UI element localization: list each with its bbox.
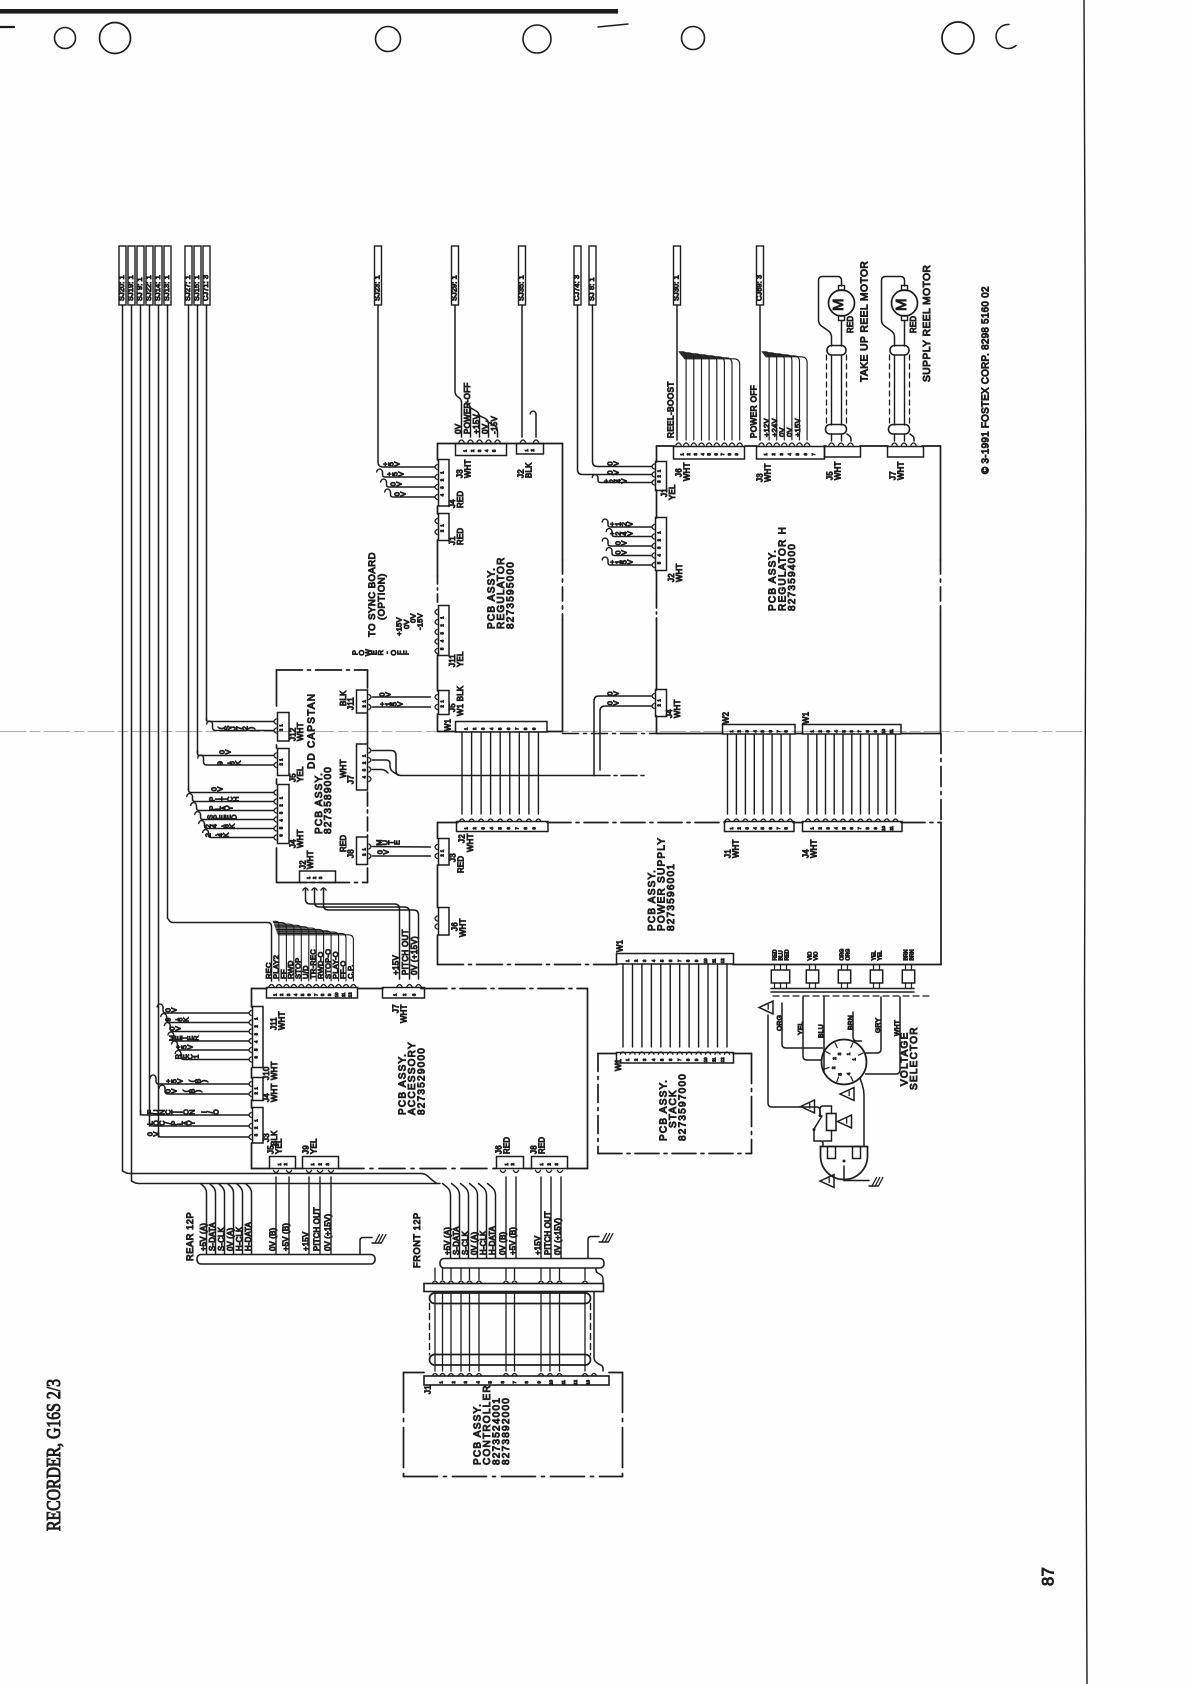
wire SJ15 to J5 pin1 labelled 0V (198, 751, 274, 756)
connector J3 RED on power supply left (439, 839, 450, 866)
wires J8 RED to front rail (540, 1177, 542, 1258)
rear rail wires from trunk (201, 1184, 207, 1255)
svg-text:1: 1 (279, 724, 284, 727)
PCB assy ACCESSORY board outline (252, 988, 268, 990)
svg-text:V: V (151, 1131, 160, 1136)
svg-text:SJ20: 1: SJ20: 1 (117, 275, 126, 301)
svg-text:V: V (396, 471, 405, 476)
selector feed wire to mains switch (768, 1015, 820, 1114)
svg-text:WHT: WHT (270, 1061, 279, 1080)
svg-text:8: 8 (320, 993, 325, 996)
warning triangle near fuse (838, 1115, 852, 1128)
wire harness from SJ20 group (122, 305, 124, 1171)
svg-text:11: 11 (341, 992, 346, 997)
svg-text:2: 2 (472, 727, 477, 730)
ribbon wires (434, 1292, 436, 1372)
svg-text:© 3-1991 FOSTEX CORP. 8298 516: © 3-1991 FOSTEX CORP. 8298 5160 02 (980, 286, 991, 474)
svg-text:7: 7 (811, 452, 816, 455)
svg-text:9: 9 (532, 826, 537, 829)
svg-text:K: K (233, 760, 242, 765)
svg-text:2: 2 (472, 826, 477, 829)
svg-text:M: M (893, 299, 910, 312)
svg-text:1: 1 (729, 729, 734, 732)
svg-text:3: 3 (642, 959, 647, 962)
svg-text:3: 3 (286, 993, 291, 996)
connector J7 WHT on DD capstan right (357, 744, 368, 790)
svg-text:2: 2 (686, 452, 691, 455)
svg-text:K: K (221, 832, 230, 837)
svg-text:1: 1 (657, 531, 662, 534)
svg-text:S-CLK: S-CLK (217, 1226, 226, 1251)
svg-text:0V: 0V (481, 423, 490, 434)
svg-text:9: 9 (537, 1380, 542, 1383)
svg-text:2: 2 (737, 826, 742, 829)
svg-text:3: 3 (477, 449, 482, 452)
svg-text:9: 9 (873, 826, 878, 829)
connector W1 on regulator H bottom (803, 725, 902, 735)
svg-text:R: R (191, 1035, 200, 1040)
svg-text:1: 1 (254, 1086, 259, 1089)
svg-text:YEL: YEL (296, 766, 305, 782)
svg-text:0V (+15V): 0V (+15V) (410, 936, 419, 975)
svg-text:YEL: YEL (310, 1138, 319, 1154)
svg-text:2: 2 (440, 704, 445, 707)
svg-text:1: 1 (362, 699, 367, 702)
punch hole (942, 22, 974, 54)
connector J6 WHT on regulator H top (REEL-BOOST) (674, 447, 745, 460)
svg-text:WHT: WHT (464, 459, 473, 478)
svg-text:SJ15: 1: SJ15: 1 (192, 275, 201, 301)
AC plug body (821, 1147, 868, 1180)
svg-text:WHT: WHT (675, 563, 684, 582)
svg-text:4: 4 (833, 729, 838, 732)
PCB assy CONTROLLER board outline (404, 1372, 425, 1374)
svg-text:1: 1 (810, 826, 815, 829)
connector J5 YEL on DD capstan (278, 749, 290, 776)
svg-text:2: 2 (510, 1162, 515, 1165)
svg-text:2: 2 (634, 1058, 639, 1061)
svg-text:8273596001: 8273596001 (666, 863, 677, 931)
svg-text:SUPPLY REEL MOTOR: SUPPLY REEL MOTOR (922, 265, 933, 382)
svg-text:4: 4 (475, 1380, 480, 1383)
svg-text:H-DATA: H-DATA (244, 1221, 253, 1251)
svg-text:PITCH OUT: PITCH OUT (401, 929, 410, 975)
svg-text:3: 3 (481, 727, 486, 730)
fuse (827, 1114, 837, 1131)
svg-text:3: 3 (254, 1133, 259, 1136)
svg-text:0V (A): 0V (A) (226, 1228, 235, 1251)
svg-text:3: 3 (745, 729, 750, 732)
wires J3 BLK (FUNCTION I/O LOC/PLAY 0V) (141, 1110, 249, 1115)
svg-text:+5V (B): +5V (B) (508, 1227, 517, 1255)
svg-text:SJ13: 1: SJ13: 1 (162, 275, 171, 301)
wires W1 regulator to J2 power supply (461, 732, 463, 814)
harness trunk to J11 (control signals) (168, 918, 272, 981)
svg-text:1: 1 (810, 729, 815, 732)
svg-text:W1: W1 (616, 940, 625, 952)
svg-text:1: 1 (440, 524, 445, 527)
svg-text:9: 9 (532, 727, 537, 730)
connector J11 YEL on regulator left (439, 606, 450, 656)
svg-text:K: K (227, 823, 236, 828)
connector J8 RED on accessory bottom (532, 1157, 568, 1169)
svg-text:2: 2 (254, 1126, 259, 1129)
scan artifact: vertical page edge line (1084, 0, 1087, 1684)
svg-text:DD CAPSTAN: DD CAPSTAN (306, 693, 317, 769)
connector J3 WHT on regulator H top (POWER OFF) (757, 447, 825, 460)
svg-text:8: 8 (784, 729, 789, 732)
svg-text:4: 4 (752, 729, 757, 732)
svg-text:9: 9 (694, 959, 699, 962)
svg-text:V: V (395, 701, 404, 706)
svg-text:7: 7 (677, 1058, 682, 1061)
svg-text:4: 4 (362, 775, 367, 778)
svg-text:2: 2 (279, 993, 284, 996)
rear rail ground (360, 1238, 372, 1255)
svg-text:+15V: +15V (533, 1235, 542, 1255)
connector stub SJ15 (194, 246, 201, 305)
wire stub to J2 BLK pin2 (530, 411, 536, 414)
svg-text:2: 2 (451, 1380, 456, 1383)
svg-text:11: 11 (889, 825, 894, 830)
svg-text:8: 8 (865, 729, 870, 732)
connector J11 BLK on DD capstan right (357, 690, 368, 713)
svg-text:4: 4 (293, 993, 298, 996)
svg-text:POWER OFF: POWER OFF (749, 385, 758, 438)
svg-text:1: 1 (539, 1162, 544, 1165)
svg-text:8273892000: 8273892000 (501, 1397, 512, 1465)
svg-text:4: 4 (846, 1072, 851, 1075)
svg-text:WHT: WHT (278, 1011, 287, 1030)
svg-text:BLU: BLU (818, 1024, 825, 1038)
svg-text:6: 6 (803, 452, 808, 455)
svg-text:6: 6 (668, 959, 673, 962)
connector J7 WHT on regulator H top (supply motor) (888, 447, 924, 458)
wires W2 to power supply J1 (727, 735, 729, 815)
svg-text:2: 2 (362, 704, 367, 707)
svg-text:POWER-OFF: POWER-OFF (463, 382, 472, 434)
svg-text:7: 7 (720, 452, 725, 455)
svg-text:12: 12 (348, 992, 353, 997)
svg-text:-15V: -15V (490, 416, 499, 434)
svg-text:8: 8 (523, 826, 528, 829)
svg-text:5: 5 (838, 1073, 843, 1076)
svg-text:Y: Y (187, 1120, 196, 1125)
svg-text:J11: J11 (347, 697, 356, 710)
svg-text:WHT: WHT (400, 1004, 409, 1023)
svg-text:V: V (619, 540, 628, 545)
svg-text:2: 2 (657, 538, 662, 541)
svg-text:SJ23: 1: SJ23: 1 (373, 275, 382, 301)
connector J1 on controller (424, 1376, 609, 1385)
svg-text:4: 4 (440, 493, 445, 496)
front rail ground (588, 1237, 599, 1259)
connector J4 WHT on regulator H left (656, 690, 667, 717)
svg-text:V: V (611, 470, 620, 475)
connector J1 WHT on power supply top (725, 822, 795, 832)
svg-text:O: O (211, 1109, 220, 1115)
svg-text:6: 6 (506, 826, 511, 829)
wire SJ23 to J4 RED pin1 (+5V) (378, 305, 435, 467)
svg-text:W1: W1 (802, 712, 811, 724)
svg-text:2: 2 (440, 478, 445, 481)
svg-text:GRY: GRY (875, 1018, 882, 1033)
svg-text:WHT: WHT (673, 699, 682, 718)
punch hole (682, 27, 705, 50)
svg-text:10: 10 (703, 958, 708, 963)
svg-text:V: V (381, 849, 390, 854)
svg-text:7: 7 (515, 727, 520, 730)
svg-text:WHT: WHT (894, 1020, 901, 1036)
svg-text:2: 2 (440, 529, 445, 532)
svg-text:5: 5 (795, 452, 800, 455)
svg-text:10: 10 (549, 1379, 554, 1384)
wire CJ71 to J12 pin1 with label (SJ72) (207, 718, 274, 722)
svg-text:4: 4 (657, 554, 662, 557)
svg-text:BLK: BLK (525, 462, 534, 478)
svg-text:2: 2 (657, 474, 662, 477)
wires from DD capstan J7 trunk up to J4 WHT (0V 0V) (594, 696, 652, 776)
svg-text:WHT: WHT (683, 462, 692, 481)
svg-text:SJ19: 1: SJ19: 1 (126, 275, 135, 301)
wires to J4 RED pins 2-4 (+5V 0V 0V) (377, 469, 383, 472)
connector J3 WHT on regulator top (456, 444, 507, 456)
svg-text:8: 8 (686, 959, 691, 962)
svg-text:Y: Y (225, 805, 234, 810)
svg-text:1: 1 (254, 1119, 259, 1122)
wire SJ35 to J2 BLK (521, 305, 523, 437)
svg-text:2: 2 (254, 1091, 259, 1094)
svg-text:2: 2 (362, 853, 367, 856)
svg-text:1: 1 (254, 1017, 259, 1020)
svg-text:SJ 8: 1: SJ 8: 1 (587, 277, 596, 301)
svg-text:WHT: WHT (834, 461, 843, 480)
svg-text:7: 7 (677, 959, 682, 962)
svg-text:CJ69: 3: CJ69: 3 (755, 275, 764, 301)
svg-text:1: 1 (310, 1162, 315, 1165)
svg-text:1: 1 (439, 1380, 444, 1383)
svg-text:13: 13 (585, 1379, 590, 1384)
wires J10 (0V 9.6K 0V METER +5V REC1) (157, 1004, 163, 1007)
svg-text:3: 3 (693, 452, 698, 455)
svg-text:2: 2 (470, 449, 475, 452)
svg-text:3: 3 (825, 826, 830, 829)
connector J3 BLK on accessory left (253, 1108, 264, 1144)
svg-text:4: 4 (700, 452, 705, 455)
svg-text:2: 2 (279, 728, 284, 731)
svg-text:REEL-BOOST: REEL-BOOST (666, 381, 675, 438)
wires J5 YEL to rear rail (0V(B) +5V(B)) (275, 1177, 277, 1254)
svg-text:V: V (169, 1007, 178, 1012)
svg-text:6: 6 (506, 727, 511, 730)
svg-text:BRN: BRN (847, 1015, 854, 1030)
svg-text:WHT: WHT (296, 722, 305, 741)
svg-text:7: 7 (857, 826, 862, 829)
svg-text:2: 2 (312, 876, 317, 879)
svg-text:0V (+15V): 0V (+15V) (323, 1214, 332, 1251)
svg-text:8273594000: 8273594000 (787, 543, 798, 611)
wires J9 YEL to rear rail (+15V PITCH OUT 0V(+15V)) (308, 1177, 310, 1254)
svg-text:1: 1 (464, 826, 469, 829)
svg-text:V: V (625, 559, 634, 564)
svg-text:2: 2 (831, 1066, 836, 1069)
svg-text:2: 2 (318, 1162, 323, 1165)
svg-text:3: 3 (837, 1052, 842, 1055)
svg-text:4: 4 (279, 819, 284, 822)
svg-text:1: 1 (846, 1052, 851, 1055)
wire harness from SJ27 group (188, 305, 190, 790)
svg-text:E: E (392, 840, 401, 845)
svg-text:5: 5 (841, 826, 846, 829)
svg-text:3: 3 (779, 452, 784, 455)
connector J10 WHT on accessory left (253, 1007, 264, 1068)
svg-text:5: 5 (841, 729, 846, 732)
wires J6 RED to front rail (505, 1177, 507, 1258)
svg-text:8273589000: 8273589000 (323, 766, 334, 834)
svg-text:9: 9 (873, 729, 878, 732)
svg-text:5: 5 (760, 729, 765, 732)
svg-text:3: 3 (362, 768, 367, 771)
punch hole (523, 25, 551, 53)
svg-text:6: 6 (307, 993, 312, 996)
wires W1 power supply to stack W1 (622, 964, 624, 1047)
svg-text:6: 6 (254, 1056, 259, 1059)
PCB assy REGULATOR H board outline (656, 446, 658, 462)
PCB assy REGULATOR board outline (437, 444, 439, 461)
svg-text:RED: RED (503, 1137, 512, 1154)
svg-text:6: 6 (668, 1058, 673, 1061)
svg-text:V: V (619, 478, 628, 483)
svg-text:7: 7 (515, 826, 520, 829)
svg-text:2: 2 (279, 804, 284, 807)
svg-text:87: 87 (1040, 1567, 1058, 1586)
svg-text:RED: RED (909, 316, 918, 333)
svg-text:7: 7 (857, 729, 862, 732)
svg-text:12: 12 (720, 958, 725, 963)
svg-text:): ) (193, 1090, 202, 1092)
connector stub SJ35 (519, 246, 526, 305)
svg-text:2: 2 (440, 854, 445, 857)
svg-text:8273597000: 8273597000 (677, 1073, 688, 1141)
connector J2 BLK on regulator top (517, 444, 544, 455)
svg-text:RED: RED (457, 856, 466, 873)
svg-text:SJ 9: 1: SJ 9: 1 (135, 277, 144, 301)
svg-text:WHT: WHT (466, 833, 475, 852)
svg-text:+5V (A): +5V (A) (443, 1227, 452, 1255)
svg-text:RED: RED (784, 949, 790, 960)
svg-text:8: 8 (865, 826, 870, 829)
connector J2 WHT on regulator H left (656, 518, 667, 571)
svg-text:0V (A): 0V (A) (470, 1232, 479, 1255)
svg-text:+15V: +15V (793, 418, 802, 437)
svg-text:3: 3 (657, 546, 662, 549)
svg-text:11: 11 (712, 958, 717, 963)
svg-text:10: 10 (703, 1057, 708, 1062)
svg-text:3: 3 (642, 1058, 647, 1061)
svg-text:J7: J7 (347, 775, 356, 784)
connector stub SJ13 (164, 246, 171, 305)
svg-text:2: 2 (547, 1162, 552, 1165)
svg-text:0V: 0V (454, 423, 463, 434)
svg-text:+15V: +15V (472, 414, 481, 434)
svg-text:1: 1 (440, 616, 445, 619)
svg-text:YEL: YEL (668, 484, 677, 500)
svg-text:PITCH OUT: PITCH OUT (543, 1211, 552, 1255)
svg-text:8273529000: 8273529000 (416, 1047, 427, 1115)
connector stub CJ71 (203, 246, 210, 305)
svg-text:WHT: WHT (270, 1083, 279, 1102)
svg-text:4: 4 (489, 826, 494, 829)
svg-text:V: V (383, 692, 392, 697)
svg-text:7: 7 (776, 826, 781, 829)
selector left wires ORG YEL BLU (782, 1003, 823, 1048)
punch hole (partial) (996, 24, 1016, 48)
svg-text:5: 5 (760, 826, 765, 829)
svg-text:4: 4 (440, 639, 445, 642)
svg-text:H: H (231, 796, 240, 801)
svg-text:3: 3 (440, 631, 445, 634)
svg-text:5: 5 (279, 826, 284, 829)
wires front rail to chassis bar (434, 1268, 436, 1280)
connector J2 WHT on power supply top (457, 822, 549, 832)
svg-text:V: V (173, 1026, 182, 1031)
svg-text:2: 2 (832, 1057, 837, 1060)
ribbon cable sides (429, 1304, 431, 1356)
svg-text:1: 1 (392, 993, 397, 996)
svg-text:+15V: +15V (392, 955, 401, 975)
svg-text:2: 2 (657, 703, 662, 706)
svg-text:3: 3 (325, 1162, 330, 1165)
svg-text:V: V (392, 461, 401, 466)
svg-text:1: 1 (729, 826, 734, 829)
svg-text:CJ71: 3: CJ71: 3 (201, 275, 210, 301)
connector stub SJ 8 (589, 246, 596, 305)
svg-text:6: 6 (849, 826, 854, 829)
svg-text:WHT: WHT (764, 463, 773, 482)
plug ground wire (843, 1166, 845, 1181)
svg-text:12: 12 (573, 1379, 578, 1384)
harness J7 to regulator H J4 (trunk along y=775) (373, 751, 595, 776)
svg-text:1: 1 (679, 452, 684, 455)
connector stub SJ27 (185, 246, 192, 305)
svg-text:F: F (402, 650, 411, 655)
svg-text:6: 6 (500, 1380, 505, 1383)
connector J11 WHT on accessory top (267, 988, 358, 999)
chain line between regulator boards (563, 733, 657, 735)
svg-text:6: 6 (279, 834, 284, 837)
connector J4 WHT on accessory left (253, 1078, 264, 1101)
svg-text:11: 11 (889, 728, 894, 733)
svg-text:V: V (398, 491, 407, 496)
PCB assy DD CAPSTAN board outline (276, 670, 278, 706)
wires J8 to power supply J3 labelled MUTE 0V (373, 846, 431, 849)
svg-text:5: 5 (707, 452, 712, 455)
svg-text:3: 3 (440, 486, 445, 489)
svg-text:1: 1 (191, 1055, 200, 1059)
svg-text:2: 2 (362, 761, 367, 764)
harness trunk B to rear fan (132, 1181, 441, 1184)
connector J7 WHT on accessory top (383, 988, 425, 999)
svg-text:J8: J8 (347, 849, 356, 858)
svg-text:0V (B): 0V (B) (268, 1228, 277, 1251)
connector J8 RED on DD capstan right (357, 837, 368, 865)
wires J4 accessory (+5V(B) 0V(B)) (150, 1075, 156, 1078)
svg-text:V: V (611, 691, 620, 696)
connector J5 W1 BLK on regulator left (439, 691, 450, 715)
svg-text:H-CLK: H-CLK (235, 1226, 244, 1251)
wires into J2 WHT (+12V +24V 0V 0V +15V) (602, 519, 608, 522)
svg-text:4: 4 (651, 959, 656, 962)
